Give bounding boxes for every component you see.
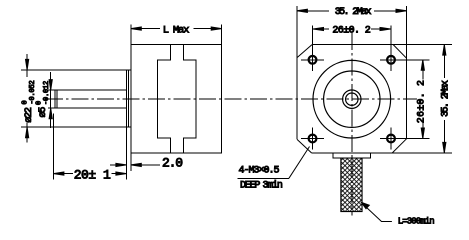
front view: hub circle [343, 90, 361, 108]
svg-text:ø22: ø22 [24, 107, 35, 123]
svg-text:35. 2Max: 35. 2Max [440, 80, 451, 117]
svg-text:3min: 3min [263, 180, 283, 192]
svg-text:20± 1: 20± 1 [74, 168, 111, 183]
front view: body circle [313, 60, 391, 138]
svg-text:L Max: L Max [163, 24, 189, 36]
front view: shaft circle [346, 93, 358, 105]
cable neck [333, 153, 371, 158]
svg-text:35. 2Max: 35. 2Max [335, 7, 372, 18]
dimension L Max [131, 24, 222, 44]
side view: shaft [48, 90, 126, 108]
svg-text:ø5: ø5 [38, 107, 49, 118]
side view: pilot boss [126, 70, 130, 180]
svg-text:-0.012: -0.012 [43, 81, 51, 105]
mounting hole top-left [301, 26, 324, 72]
leader and label L=300min [361, 202, 434, 226]
svg-text:4-M3×0.5: 4-M3×0.5 [239, 165, 280, 176]
cable with hatch [341, 158, 362, 212]
note 4-M3×0.5 DEEP 3min with leader to hole [238, 147, 310, 192]
front view: pilot circle [324, 71, 380, 127]
side view: motor body outline [131, 44, 222, 153]
mounting hole bottom-left [301, 128, 324, 150]
dimension phi22 0/-0.052 [21, 54, 127, 143]
mounting hole top-right [380, 26, 430, 72]
svg-text:2.0: 2.0 [162, 155, 182, 170]
svg-text:DEEP: DEEP [240, 181, 260, 192]
svg-text:-0.052: -0.052 [29, 80, 37, 104]
dimension 26±0.2 right (vertical) [417, 60, 428, 139]
dimension 20±1 [53, 114, 126, 183]
svg-text:26±0. 2: 26±0. 2 [332, 26, 370, 37]
dimension 2.0 [110, 153, 182, 171]
front view: vertical centerline [351, 33, 353, 216]
side view / front view horizontal centerline [46, 98, 417, 100]
chamfer bottom-right [392, 139, 406, 153]
dimension 35.2Max right (vertical) [440, 45, 451, 153]
dimension 26±0.2 top [313, 26, 391, 37]
svg-text:L=300min: L=300min [398, 217, 435, 227]
dimension phi5 0/-0.012 [36, 72, 53, 128]
chamfer bottom-left [297, 139, 312, 153]
side view: stator cross-section profile [157, 44, 196, 153]
chamfer top-right [393, 45, 406, 59]
dimension 35.2Max top [297, 7, 407, 18]
mounting hole bottom-right [380, 128, 430, 150]
front view: flange outline [297, 6, 452, 153]
chamfer top-left [297, 45, 312, 58]
svg-text:26±0. 2: 26±0. 2 [417, 80, 428, 123]
